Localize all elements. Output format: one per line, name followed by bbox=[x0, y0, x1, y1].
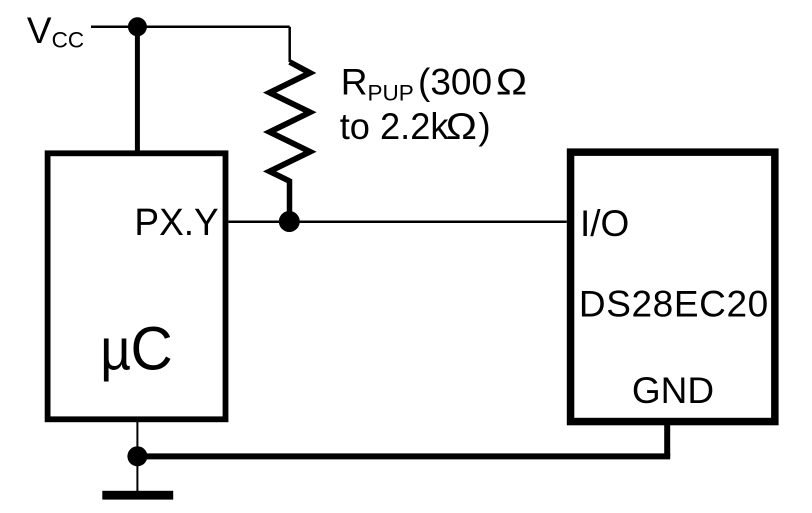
resistor RPUP zigzag bbox=[270, 62, 310, 181]
wire VCC horizontal bbox=[91, 26, 290, 29]
svg-text:DS28EC20: DS28EC20 bbox=[579, 284, 769, 325]
junction dot pull-up node bbox=[279, 211, 300, 232]
svg-text:to 2.2k: to 2.2k bbox=[340, 106, 450, 147]
wire GND horizontal (thick) bbox=[137, 453, 670, 459]
svg-text:Ω: Ω bbox=[446, 106, 477, 147]
wire µC to ground stub bbox=[136, 421, 138, 495]
label RPUP ohm symbol line 1 bbox=[496, 62, 527, 103]
svg-text:I/O: I/O bbox=[580, 203, 629, 244]
wire PX.Y to I/O bbox=[228, 221, 566, 224]
ground symbol bbox=[102, 491, 173, 500]
junction dot ground node bbox=[127, 446, 147, 466]
svg-text:PX.Y: PX.Y bbox=[134, 201, 218, 244]
svg-text:µ: µ bbox=[100, 318, 131, 383]
DS28EC20 box bbox=[571, 152, 775, 421]
junction dot VCC node bbox=[128, 17, 147, 36]
wire GND pin vertical (thick) bbox=[664, 422, 670, 457]
label RPUP value line 2 bbox=[340, 106, 450, 147]
svg-text:): ) bbox=[478, 106, 490, 147]
label µC bbox=[100, 318, 131, 383]
pin label PX.Y bbox=[134, 201, 218, 244]
svg-text:Ω: Ω bbox=[496, 62, 527, 103]
wire resistor top lead bbox=[288, 27, 291, 62]
microcontroller box bbox=[48, 153, 226, 419]
svg-text:C: C bbox=[131, 314, 173, 383]
wire VCC to microcontroller (thick) bbox=[135, 27, 140, 152]
svg-text:GND: GND bbox=[632, 370, 714, 411]
wire resistor bottom lead (thick) bbox=[287, 179, 293, 222]
label RPUP ohm symbol line 2 bbox=[446, 106, 477, 147]
